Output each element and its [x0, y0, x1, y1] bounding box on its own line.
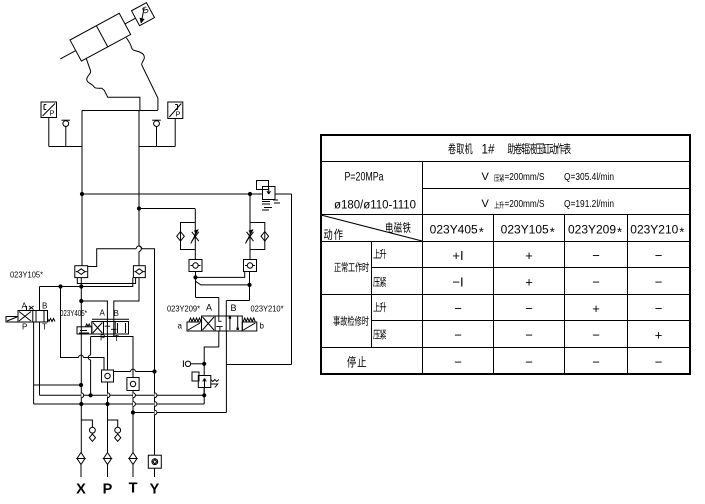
- svg-text:B: B: [231, 303, 237, 313]
- svg-text:A: A: [206, 303, 212, 313]
- svg-text:P=20MPa: P=20MPa: [345, 172, 384, 184]
- svg-text:b: b: [260, 322, 265, 331]
- svg-text:023Y209: 023Y209: [568, 225, 616, 237]
- port labels X P T Y: [76, 481, 160, 498]
- svg-text:A: A: [22, 302, 28, 311]
- svg-text:Q=305.4l/min: Q=305.4l/min: [564, 171, 614, 183]
- T line small sq: [132, 391, 134, 453]
- svg-text:Q=191.2l/min: Q=191.2l/min: [564, 198, 614, 210]
- header row: diagonal cell labels: [324, 222, 411, 240]
- displacement transducer box: [131, 3, 154, 26]
- pilot check small sq left: [189, 260, 202, 272]
- A/B distribution rails: [77, 278, 135, 284]
- pressure transducer right (I/P box): [168, 102, 183, 119]
- svg-text:−: −: [655, 275, 663, 290]
- table frame: [321, 135, 690, 374]
- svg-text:023Y210*: 023Y210*: [251, 304, 285, 314]
- svg-text:023Y105*: 023Y105*: [10, 270, 44, 280]
- svg-text:+: +: [525, 248, 533, 263]
- main risers: [81, 111, 83, 266]
- svg-text:−: −: [525, 355, 533, 370]
- solenoid valve 023Y209/023Y210: [187, 316, 257, 413]
- table title: [448, 142, 571, 157]
- svg-text:1#: 1#: [482, 142, 495, 157]
- svg-text:B: B: [42, 302, 47, 311]
- hose to rod side (left): [86, 59, 139, 111]
- data cells: [452, 248, 662, 369]
- solenoid valve 023Y105: [6, 287, 83, 405]
- diagonal in header cell: [321, 215, 422, 241]
- row2/3 left cell: [334, 172, 416, 212]
- proportional valve 023Y405: [77, 319, 133, 397]
- svg-text:a: a: [178, 322, 183, 331]
- svg-text:*: *: [479, 225, 484, 240]
- svg-text:P: P: [50, 109, 55, 118]
- svg-text:−: −: [655, 301, 663, 316]
- V rows: [482, 171, 615, 210]
- svg-text:*: *: [550, 225, 555, 240]
- svg-text:*: *: [617, 225, 622, 240]
- svg-text:−I: −I: [452, 275, 463, 290]
- test point left: [63, 121, 69, 127]
- drop from bus to lower pilot sq: [61, 287, 79, 358]
- pressure reducing valve: [192, 372, 199, 381]
- hydraulic cylinder (tilted): [55, 0, 157, 69]
- svg-text:−: −: [454, 301, 462, 316]
- test point right: [154, 121, 160, 127]
- svg-text:−: −: [655, 355, 663, 370]
- svg-text:−: −: [655, 248, 663, 263]
- svg-text:ø180/ø110-1110: ø180/ø110-1110: [334, 200, 416, 212]
- svg-text:−: −: [592, 275, 600, 290]
- svg-text:T: T: [42, 323, 47, 332]
- svg-text:023Y405*: 023Y405*: [60, 308, 87, 318]
- svg-text:−: −: [454, 355, 462, 370]
- svg-text:*: *: [679, 225, 684, 240]
- svg-text:023Y105: 023Y105: [501, 225, 549, 237]
- svg-text:X: X: [76, 482, 86, 498]
- svg-text:A: A: [100, 309, 106, 318]
- hose to piston side (right): [126, 38, 157, 110]
- pilot cross link b: [196, 281, 250, 285]
- svg-text:T: T: [114, 334, 119, 343]
- piston line: [96, 26, 107, 47]
- svg-text:B: B: [114, 309, 119, 318]
- svg-text:−: −: [592, 248, 600, 263]
- svg-text:023Y209*: 023Y209*: [167, 304, 201, 314]
- svg-text:V: V: [482, 198, 490, 210]
- shut-off valves X P T: [77, 453, 161, 478]
- solenoid column headers: [430, 225, 685, 240]
- svg-text:P: P: [176, 110, 181, 119]
- test point near reducing valve: [183, 361, 218, 397]
- svg-text:−: −: [454, 328, 462, 343]
- check valve (right): [133, 266, 145, 278]
- svg-text:V: V: [482, 171, 490, 183]
- pilot cross link a: [196, 272, 245, 278]
- pressure transducer left (I/P box): [41, 102, 57, 118]
- connecting header line: [82, 110, 158, 112]
- bottom test points: [81, 420, 121, 441]
- one-way throttle left: [194, 209, 196, 260]
- svg-text:−: −: [592, 355, 600, 370]
- svg-text:+: +: [592, 301, 600, 316]
- svg-text:023Y210: 023Y210: [630, 225, 678, 237]
- Y port check box: [154, 454, 156, 456]
- svg-text:=200mm/S: =200mm/S: [505, 198, 545, 210]
- svg-text:Y: Y: [150, 482, 160, 498]
- svg-text:+: +: [655, 328, 663, 343]
- svg-text:−: −: [592, 328, 600, 343]
- svg-text:P: P: [22, 323, 27, 332]
- svg-text:+I: +I: [452, 248, 463, 263]
- svg-text:−: −: [525, 301, 533, 316]
- Y pilot branch: [114, 371, 131, 373]
- bottom manifold lines: [34, 369, 227, 452]
- pilot check small sq right: [244, 260, 257, 272]
- bridge link over check valves: [88, 249, 136, 267]
- piston rod up to sensor: [125, 18, 136, 24]
- one-way throttle right: [249, 194, 251, 260]
- check valve (left): [75, 266, 88, 278]
- branch to left one-way throttle: [139, 208, 195, 210]
- row labels: [333, 249, 386, 368]
- svg-text:P: P: [100, 334, 105, 343]
- svg-text:P: P: [103, 482, 113, 498]
- piston rod lower-left: [60, 51, 75, 59]
- pressure bus to relief valve: [82, 193, 263, 195]
- svg-text:−: −: [525, 328, 533, 343]
- svg-text:+: +: [525, 275, 533, 290]
- relief valve: [257, 181, 269, 190]
- svg-text:T: T: [129, 481, 138, 497]
- svg-text:=200mm/S: =200mm/S: [505, 171, 545, 183]
- table grid lines: [321, 162, 690, 375]
- svg-text:023Y405: 023Y405: [430, 225, 478, 237]
